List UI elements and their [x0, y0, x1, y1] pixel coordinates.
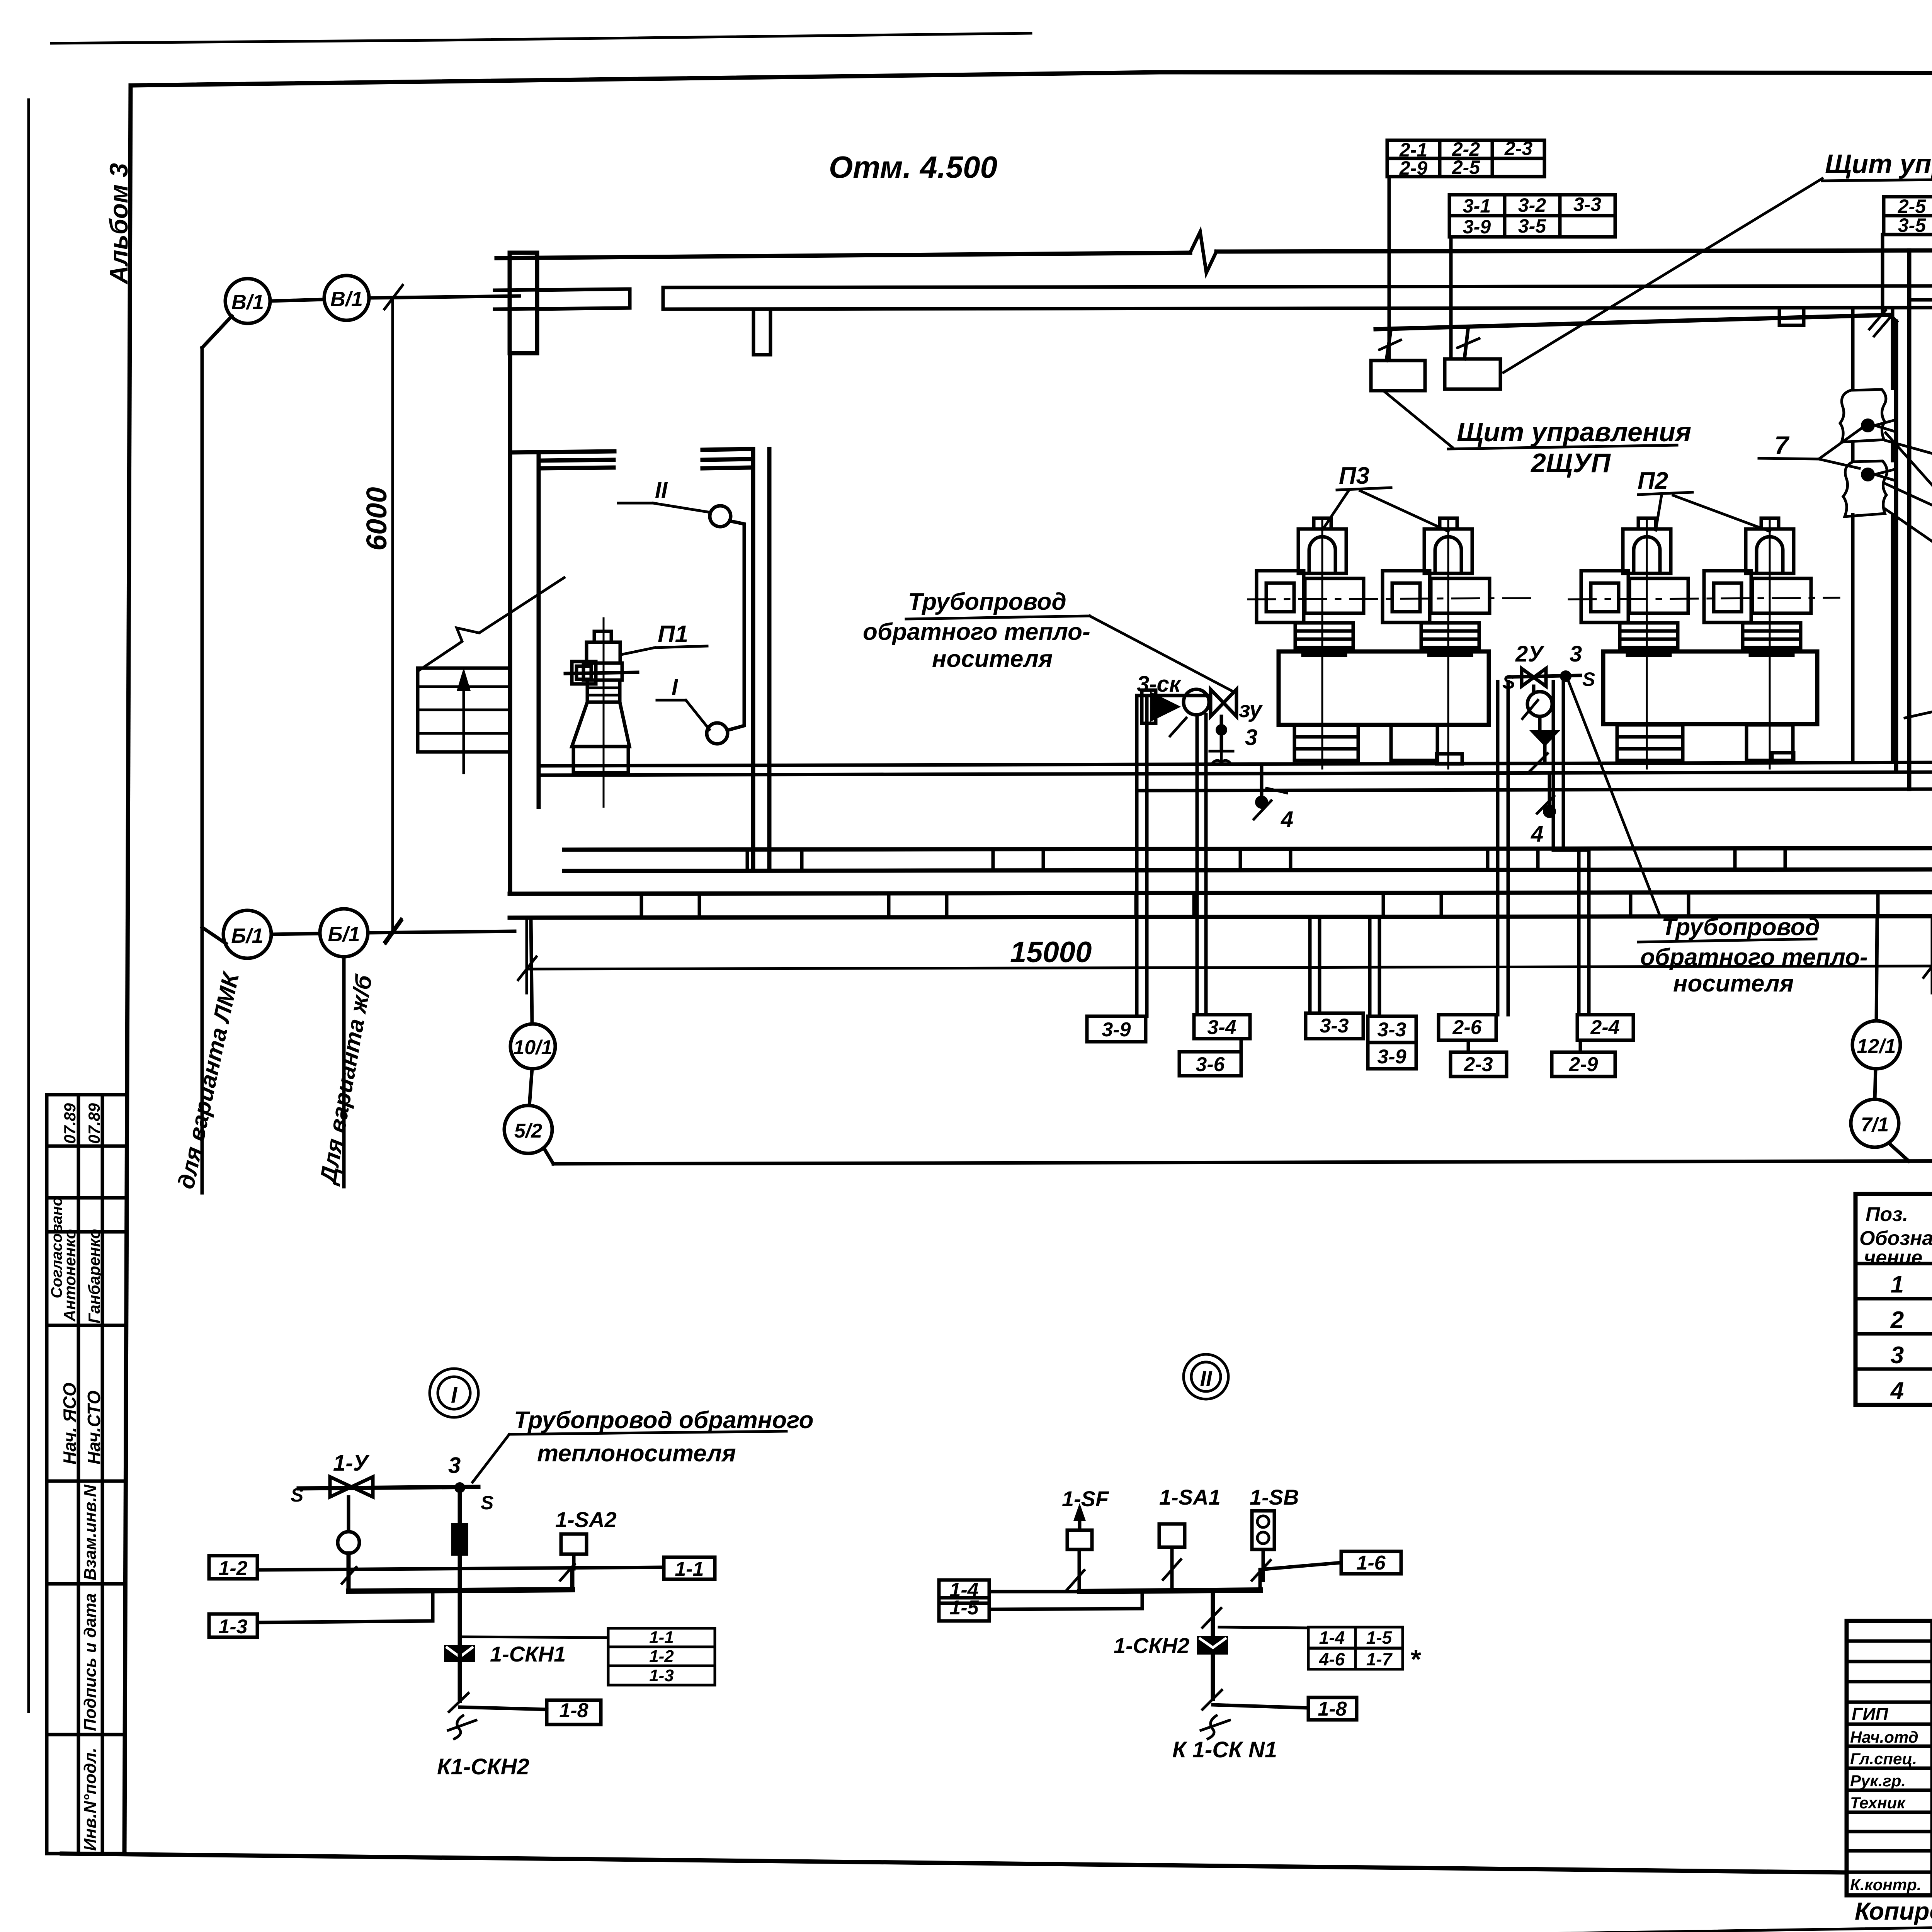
bottom wall blocks lower band — [641, 892, 1878, 917]
bottom wall lower band — [510, 892, 1932, 918]
fan unit П1 stack — [587, 680, 620, 702]
pipe drop with tray dot 4 left — [1260, 764, 1264, 795]
leader Щит управления 3ЩУП diagonal — [1503, 179, 1822, 372]
SB symbol — [1252, 1511, 1274, 1549]
fan unit П3 left — [1257, 518, 1364, 769]
frame top border — [131, 72, 1932, 85]
svg-text:*: * — [1410, 1644, 1421, 1674]
svg-text:1-SА1: 1-SА1 — [1159, 1485, 1221, 1509]
svg-text:3: 3 — [1891, 1342, 1904, 1369]
leader detail I mark — [657, 700, 709, 730]
svg-text:К1-СКН2: К1-СКН2 — [437, 1754, 529, 1779]
paper left edge line — [27, 100, 30, 1712]
leader Б/1 to ЛМК line — [202, 927, 226, 944]
top wall inner band upper line — [495, 286, 1932, 290]
svg-text:II: II — [655, 478, 668, 503]
label box 2-6 — [1439, 1015, 1496, 1040]
boxes 2x2 group — [1308, 1627, 1355, 1648]
pedestal under П2 right — [1747, 725, 1793, 760]
svg-text:2-4: 2-4 — [1590, 1016, 1619, 1039]
fan unit П1 cone — [572, 702, 629, 747]
svg-text:3-3: 3-3 — [1377, 1019, 1406, 1041]
bus risers — [349, 1553, 572, 1591]
branch to 2x2 boxes — [1219, 1627, 1308, 1628]
drop detail II — [1211, 1592, 1215, 1699]
anchor symbol — [1210, 736, 1233, 764]
label box stack 3-9 — [1368, 1043, 1416, 1069]
svg-text:7/1: 7/1 — [1861, 1114, 1889, 1136]
fan unit П1 base — [573, 747, 628, 773]
svg-text:обратного тепло-: обратного тепло- — [863, 619, 1090, 645]
svg-text:К 1-СК N1: К 1-СК N1 — [1172, 1737, 1277, 1762]
svg-text:1-5: 1-5 — [949, 1597, 979, 1619]
underline Щит управления 3ЩУП — [1822, 178, 1932, 181]
svg-text:Гл.спец.: Гл.спец. — [1850, 1750, 1917, 1768]
tambour room top wall — [510, 449, 751, 468]
svg-text:4: 4 — [1890, 1378, 1904, 1404]
door jambs — [630, 287, 663, 309]
wire 1-3 — [257, 1590, 433, 1622]
svg-text:6000: 6000 — [361, 487, 393, 551]
svg-text:5/2: 5/2 — [514, 1120, 542, 1142]
valve group 3-СК: gauge circle — [1184, 689, 1209, 715]
svg-text:3-6: 3-6 — [1196, 1053, 1225, 1076]
svg-text:2-3: 2-3 — [1504, 138, 1532, 159]
valve group 2У gauge — [1532, 686, 1536, 692]
svg-text:1-У: 1-У — [333, 1451, 370, 1476]
fan unit П2 right — [1704, 518, 1811, 769]
SA1 square — [1159, 1524, 1185, 1547]
duct cloud upper — [1840, 389, 1886, 442]
svg-text:носителя: носителя — [932, 646, 1053, 672]
svg-text:4: 4 — [1281, 807, 1293, 832]
svg-text:Подпись и дата: Подпись и дата — [81, 1593, 100, 1731]
valve group 2У pipe line — [1509, 675, 1580, 677]
title sig rows — [1847, 1641, 1932, 1872]
svg-text:4-6: 4-6 — [1319, 1649, 1345, 1669]
svg-text:3-9: 3-9 — [1463, 216, 1491, 238]
wire 1-5 — [989, 1592, 1142, 1609]
base П2 pair — [1603, 651, 1817, 724]
label box 3-9 — [1087, 1016, 1146, 1042]
svg-text:2-6: 2-6 — [1452, 1016, 1482, 1039]
title block frame — [1847, 1621, 1932, 1895]
svg-text:1-8: 1-8 — [559, 1699, 588, 1722]
line down to circle 10/1 — [531, 920, 532, 1024]
wire to 1-6 — [1260, 1563, 1341, 1590]
svg-text:зу: зу — [1239, 697, 1263, 722]
svg-text:07.89: 07.89 — [85, 1103, 103, 1144]
label box stack 3-3 — [1368, 1016, 1416, 1043]
svg-text:4: 4 — [1531, 821, 1543, 847]
svg-text:Трубопровод: Трубопровод — [1662, 914, 1820, 940]
wire 1-4 — [989, 1590, 1080, 1594]
circle 12/1 — [1852, 1021, 1900, 1069]
svg-text:3-3: 3-3 — [1573, 194, 1601, 215]
svg-text:Б/1: Б/1 — [231, 924, 263, 947]
leader to column line ЛМК — [202, 316, 232, 348]
paper top edge line — [51, 33, 1031, 43]
tick on В/1 axis — [384, 285, 403, 309]
table T1 (2-1 row) — [1387, 140, 1544, 177]
duct verticals — [1853, 309, 1893, 762]
valve group 2У: bowtie — [1522, 668, 1546, 686]
svg-text:2: 2 — [1890, 1307, 1904, 1333]
pedestal under П3 right — [1391, 725, 1437, 760]
svg-text:теплоносителя: теплоносителя — [537, 1440, 736, 1467]
box 1-1 — [664, 1557, 715, 1579]
svg-text:2-9: 2-9 — [1399, 157, 1427, 179]
right wall duct verticals — [1909, 250, 1932, 789]
wire from table T3 to tray — [1881, 235, 1884, 314]
svg-text:3-ск: 3-ск — [1137, 672, 1182, 697]
table T3 (5 col) — [1884, 197, 1932, 235]
svg-text:3: 3 — [448, 1453, 461, 1478]
detail I leader to node — [473, 1434, 509, 1482]
svg-text:I: I — [451, 1383, 458, 1408]
svg-text:Для варианта ж/б: Для варианта ж/б — [315, 972, 377, 1187]
branch to boxes stack — [460, 1637, 608, 1638]
воздуховод leaders — [1886, 433, 1932, 631]
tambour room left wall — [510, 353, 539, 894]
stair break line — [419, 578, 564, 670]
parts table horizontals — [1855, 1264, 1932, 1369]
svg-text:3-3: 3-3 — [1320, 1015, 1349, 1037]
stamp column structure — [47, 1095, 125, 1854]
line from wall to 12/1 — [1876, 920, 1877, 1021]
link 3-4 to 3-6 — [1240, 1039, 1243, 1052]
label box 2-3 — [1451, 1052, 1507, 1077]
axis line В/1 — [270, 296, 519, 301]
end hook — [448, 1716, 476, 1739]
tray tick — [1869, 310, 1890, 336]
dimension line 6000 vertical — [391, 299, 394, 931]
fan unit П2 left — [1581, 518, 1688, 769]
frame bottom border — [62, 1854, 1847, 1872]
svg-text:Трубопровод обратного: Трубопровод обратного — [514, 1407, 814, 1434]
проложить leader — [1905, 680, 1932, 718]
svg-text:П2: П2 — [1638, 468, 1668, 494]
sensor circle lower — [707, 723, 728, 744]
svg-text:S: S — [481, 1492, 493, 1514]
link 10/1 to 5/2 — [529, 1069, 532, 1105]
svg-text:для варианта ЛМК: для варианта ЛМК — [173, 969, 244, 1191]
svg-text:1-6: 1-6 — [1356, 1552, 1386, 1574]
svg-text:3-2: 3-2 — [1518, 194, 1546, 216]
svg-text:07.89: 07.89 — [61, 1103, 79, 1144]
damper dot upper — [1861, 418, 1875, 432]
break symbol on top wall — [1190, 232, 1216, 273]
svg-text:I: I — [672, 675, 679, 700]
line to box 3-5 — [1886, 440, 1932, 482]
svg-text:чение: чение — [1864, 1247, 1922, 1269]
axis dash line П3 pair — [1248, 598, 1530, 599]
svg-text:Взам.инв.N: Взам.инв.N — [81, 1484, 100, 1580]
svg-text:1-SВ: 1-SВ — [1250, 1485, 1299, 1509]
wall T wing — [537, 289, 630, 309]
SF arrow — [1078, 1509, 1082, 1530]
leader Щит управления 2ЩУП — [1383, 391, 1677, 449]
svg-text:Нач.СТО: Нач.СТО — [84, 1390, 104, 1464]
svg-text:10/1: 10/1 — [513, 1036, 552, 1059]
box 1-8 second — [1308, 1697, 1357, 1720]
svg-text:обратного тепло-: обратного тепло- — [1640, 944, 1868, 971]
wall pier — [753, 309, 770, 355]
valve group 3-СК: check valve — [1150, 692, 1181, 722]
envelope 1-СКН2 — [1197, 1636, 1228, 1655]
grid circle Б/1 right — [320, 909, 368, 957]
box 1-2 — [209, 1556, 257, 1579]
line to box 2-5 — [1886, 484, 1932, 553]
ticks detail II — [1066, 1560, 1270, 1628]
fan unit П1 cross bar — [565, 672, 638, 673]
link 2-4 to 2-9 — [1579, 1040, 1582, 1052]
podium edge lines — [541, 762, 1932, 791]
wire from table2 to panel — [1449, 237, 1453, 359]
svg-text:Альбом 3: Альбом 3 — [104, 163, 133, 285]
leader Трубопровод lower underline — [1638, 939, 1816, 942]
svg-text:1-1: 1-1 — [649, 1628, 674, 1647]
fan unit П1 motor — [594, 631, 611, 642]
valve group 2У node dot — [1560, 670, 1571, 682]
svg-text:Отм. 4.500: Отм. 4.500 — [829, 150, 997, 184]
svg-text:1-СКН1: 1-СКН1 — [490, 1642, 566, 1666]
panel box 2ЩУП — [1371, 361, 1425, 391]
pipe pair to box 3-3 — [1310, 920, 1320, 1013]
valve group 2У check valve — [1529, 730, 1560, 747]
box 1-6 — [1341, 1551, 1401, 1574]
branch to 1-8 — [460, 1707, 547, 1709]
box 1-3 — [209, 1614, 257, 1637]
circle 7/1 — [1851, 1099, 1899, 1147]
svg-text:2-5: 2-5 — [1452, 156, 1480, 178]
boxes stack 1-1 1-2 1-3 — [608, 1628, 715, 1647]
svg-text:S: S — [1502, 671, 1515, 693]
tick slashes — [1170, 718, 1271, 819]
svg-text:S: S — [291, 1484, 303, 1506]
svg-text:2ЩУП: 2ЩУП — [1530, 448, 1611, 478]
dim extension right 15000 — [1931, 918, 1932, 993]
svg-text:П1: П1 — [658, 621, 688, 648]
drop from node with resistor — [458, 1488, 462, 1591]
stairs outline — [418, 668, 510, 752]
svg-text:Б/1: Б/1 — [328, 923, 360, 946]
svg-text:2-3: 2-3 — [1463, 1053, 1493, 1076]
staple symbol on tray — [1779, 309, 1804, 325]
cable tray vertical — [1894, 321, 1898, 769]
grid circle В/1 left — [225, 279, 270, 323]
fan unit П3 right — [1383, 518, 1490, 769]
label box 3-3 — [1306, 1013, 1363, 1039]
valve group 3-СК: X valve — [1211, 689, 1236, 716]
tick on Б/1 axis — [384, 919, 402, 944]
circle 10/1 — [510, 1024, 555, 1069]
envelope 1-СКН1 — [444, 1645, 475, 1662]
damper flags — [1875, 420, 1896, 481]
drop through envelope — [458, 1591, 462, 1701]
svg-text:3-1: 3-1 — [1463, 195, 1491, 217]
svg-text:Трубопровод: Трубопровод — [908, 588, 1066, 615]
svg-text:1-8: 1-8 — [1318, 1698, 1347, 1720]
valve 1-У bowtie — [330, 1477, 373, 1497]
duct cloud lower — [1843, 461, 1887, 517]
svg-text:15000: 15000 — [1010, 936, 1092, 969]
svg-text:2-9: 2-9 — [1568, 1053, 1598, 1076]
svg-text:1-1: 1-1 — [675, 1558, 704, 1580]
SF square — [1067, 1530, 1092, 1549]
svg-text:2-5: 2-5 — [1898, 196, 1926, 217]
tambour room right wall — [753, 449, 769, 869]
svg-text:К.контр.: К.контр. — [1850, 1876, 1921, 1894]
grid circle В/1 right — [324, 276, 369, 320]
stair center line with arrow — [463, 674, 465, 773]
tray staples on podium — [1437, 754, 1462, 764]
tick slashes group 2У — [1522, 700, 1554, 813]
branch to 1-8 — [1213, 1705, 1308, 1708]
label П1 underline and leader — [621, 646, 707, 655]
column at grid В/1 — [510, 253, 537, 353]
leader detail II mark — [618, 503, 710, 512]
svg-text:П3: П3 — [1339, 463, 1369, 489]
dim extension left 15000 — [526, 920, 528, 993]
ticks 15000 — [518, 954, 1932, 980]
paper bottom edge line — [54, 1916, 1932, 1932]
link 2-6 to 2-3 — [1467, 1040, 1470, 1052]
svg-text:Щит управления: Щит управления — [1457, 417, 1691, 447]
label box 3-6 — [1179, 1052, 1241, 1076]
valve group node dot 3 — [1216, 724, 1227, 736]
svg-text:1-5: 1-5 — [1366, 1628, 1393, 1648]
svg-text:1-7: 1-7 — [1366, 1649, 1393, 1669]
svg-text:3-5: 3-5 — [1518, 215, 1546, 237]
svg-text:II: II — [1200, 1366, 1213, 1391]
ticks — [342, 1564, 575, 1583]
svg-text:Рук.гр.: Рук.гр. — [1850, 1772, 1906, 1790]
pipe with dot 4 right — [1548, 773, 1551, 804]
svg-text:ГИП: ГИП — [1852, 1704, 1888, 1724]
gauge stem — [347, 1497, 350, 1532]
svg-text:1: 1 — [1891, 1271, 1904, 1298]
pedestal under П2 left — [1617, 725, 1683, 760]
bottom wall upper band — [564, 848, 1932, 871]
svg-text:2У: 2У — [1515, 641, 1544, 667]
svg-text:3-4: 3-4 — [1207, 1016, 1236, 1039]
svg-text:1-СКН2: 1-СКН2 — [1114, 1633, 1189, 1658]
frame left border — [124, 85, 131, 1854]
axis line Б/1 — [271, 931, 515, 934]
duct top connector — [1909, 298, 1932, 302]
diagonal 5/2 to лмк line — [544, 1148, 553, 1164]
svg-text:В/1: В/1 — [330, 287, 363, 311]
bus detail II — [1080, 1590, 1260, 1592]
svg-text:3: 3 — [1570, 641, 1582, 667]
detail I circle — [430, 1369, 478, 1417]
base П3 pair — [1279, 651, 1489, 725]
valve group pipes — [1137, 696, 1206, 1016]
cable tray horizontal — [1376, 315, 1896, 329]
SA2 square — [561, 1534, 587, 1554]
column line variant ЛМК vertical — [201, 348, 204, 1193]
variant лмк horizontal line — [553, 1161, 1932, 1164]
node dot 3 — [454, 1482, 465, 1493]
detail II circle — [1184, 1354, 1228, 1399]
leader 7 — [1759, 428, 1862, 468]
svg-text:1-3: 1-3 — [218, 1616, 247, 1638]
top wall outer line — [497, 253, 1190, 258]
svg-text:Согласовано: Согласовано — [48, 1197, 65, 1298]
sensor wire — [727, 521, 744, 730]
table T2 (3-1 row) — [1449, 195, 1615, 237]
leader П2 — [1638, 492, 1770, 531]
pedestal under П3 left — [1294, 725, 1358, 760]
box 1-4 — [939, 1580, 989, 1603]
variant ж/б vertical line — [342, 957, 346, 1187]
link 12/1 to 7/1 — [1875, 1069, 1876, 1099]
svg-text:Ганбаренко: Ганбаренко — [85, 1229, 103, 1323]
svg-text:7: 7 — [1774, 431, 1790, 459]
panel box 3ЩУП — [1445, 359, 1500, 389]
svg-text:Техник: Техник — [1850, 1794, 1906, 1812]
svg-text:1-SF: 1-SF — [1062, 1486, 1109, 1511]
leader Трубопровод lower diagonal — [1569, 682, 1660, 915]
svg-text:1-2: 1-2 — [649, 1647, 674, 1666]
box 1-5 — [939, 1598, 989, 1621]
label box 3-4 — [1194, 1015, 1250, 1039]
main line detail I — [299, 1487, 478, 1488]
leader П3 — [1322, 488, 1448, 531]
bottom wall blocks upper band — [747, 849, 1785, 871]
svg-text:Инв.N°подл.: Инв.N°подл. — [81, 1748, 100, 1851]
wire from table1 to panel — [1388, 177, 1391, 361]
damper dot lower — [1861, 468, 1875, 481]
panel hooks to tray — [1386, 327, 1468, 361]
svg-text:1-3: 1-3 — [649, 1666, 674, 1685]
svg-text:1-2: 1-2 — [218, 1557, 247, 1580]
svg-text:Нач. ЯСО: Нач. ЯСО — [60, 1383, 80, 1464]
svg-text:носителя: носителя — [1673, 970, 1794, 997]
svg-text:Поз.: Поз. — [1866, 1203, 1908, 1226]
top wall inner band lower line — [495, 308, 1932, 309]
svg-text:Щит управления 3ЩУП: Щит управления 3ЩУП — [1825, 149, 1932, 179]
svg-text:3-9: 3-9 — [1377, 1046, 1406, 1068]
end hook II — [1201, 1716, 1230, 1739]
circle 5/2 — [504, 1105, 552, 1153]
svg-text:S: S — [1582, 668, 1595, 690]
pipe pair to stack 3-3/3-9 — [1370, 920, 1379, 1016]
leader Трубопровод upper: underline and diagonal — [906, 616, 1233, 692]
svg-text:Копировал: Чистоклет: Копировал: Чистоклет — [1855, 1897, 1932, 1925]
dimension line 15000 — [527, 966, 1932, 969]
svg-text:В/1: В/1 — [231, 291, 264, 314]
box 1-8 — [547, 1700, 601, 1725]
svg-text:1-4: 1-4 — [1319, 1628, 1345, 1648]
axis dash line П2 pair — [1569, 598, 1839, 599]
diagonal 7/1 to лмк — [1889, 1143, 1909, 1161]
svg-text:1-SA2: 1-SA2 — [555, 1507, 617, 1532]
grid circle Б/1 left — [223, 910, 271, 958]
top wall outer line right part — [1216, 250, 1932, 252]
svg-text:Нач.отд: Нач.отд — [1850, 1728, 1918, 1746]
stair treads — [418, 687, 510, 733]
valve 2У pipes down — [1498, 682, 1589, 1015]
parts table frame — [1855, 1194, 1932, 1405]
svg-text:12/1: 12/1 — [1857, 1035, 1896, 1058]
bus detail I — [349, 1590, 572, 1591]
label box 2-9 — [1552, 1052, 1615, 1077]
gauge circle — [338, 1532, 359, 1553]
label box 2-4 — [1577, 1015, 1633, 1040]
sensor circle upper — [710, 506, 731, 527]
